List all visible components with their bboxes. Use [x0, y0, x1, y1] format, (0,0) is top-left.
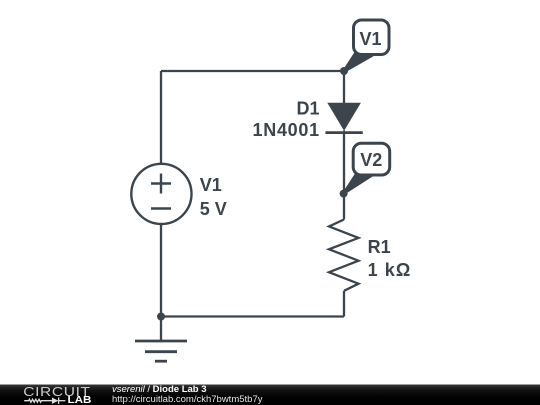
svg-text:R1: R1	[368, 237, 391, 257]
svg-text:V2: V2	[360, 150, 382, 170]
svg-text:1N4001: 1N4001	[253, 120, 320, 140]
svg-text:V1: V1	[200, 175, 222, 195]
svg-text:LAB: LAB	[68, 395, 92, 405]
svg-text:1 kΩ: 1 kΩ	[368, 260, 412, 280]
svg-text:5 V: 5 V	[200, 199, 227, 219]
svg-text:D1: D1	[296, 99, 319, 119]
svg-text:V1: V1	[359, 29, 381, 49]
svg-text:http://circuitlab.com/ckh7bwtm: http://circuitlab.com/ckh7bwtm5tb7y	[112, 394, 263, 405]
